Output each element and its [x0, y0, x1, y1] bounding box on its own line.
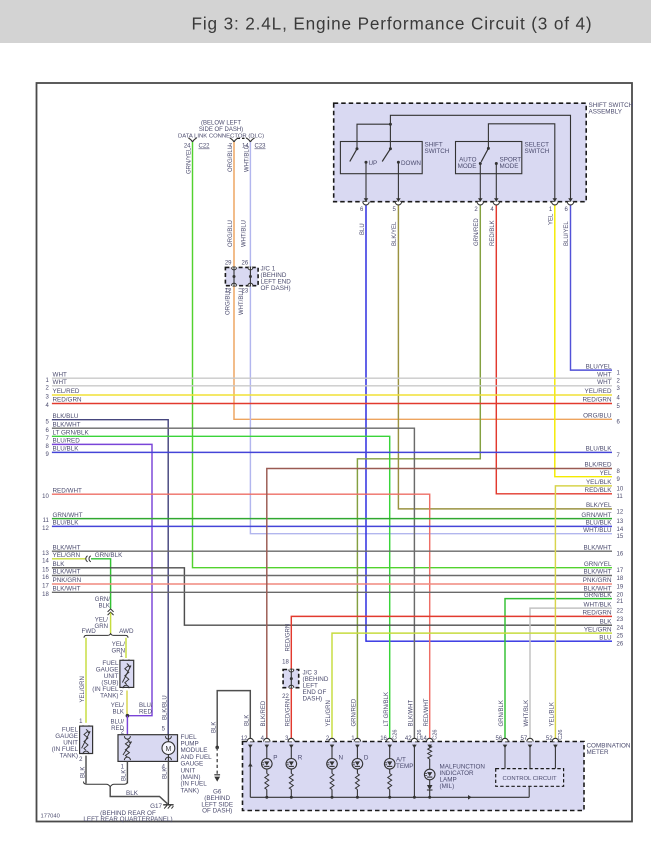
- wire BLK/WHT L18-R20: [52, 591, 612, 593]
- wire YEL/GRN L14 segment: [52, 558, 86, 560]
- svg-text:WHT: WHT: [53, 371, 67, 378]
- svg-text:TANK): TANK): [60, 753, 78, 760]
- fuel pump motor M: [167, 735, 169, 742]
- svg-text:WHT: WHT: [597, 379, 611, 386]
- malfunction indicator lamp MIL: [424, 769, 435, 780]
- svg-text:15: 15: [42, 567, 49, 573]
- meter internal pin12 line with arrow: [249, 745, 251, 798]
- svg-text:YEL/GRN: YEL/GRN: [584, 626, 612, 633]
- meter pin 57 entry: [527, 738, 533, 741]
- svg-text:SWITCH: SWITCH: [425, 148, 450, 155]
- junction connector J/C3 box: [283, 670, 299, 688]
- indicator LED A/T TEMP: [389, 745, 391, 759]
- resistor below LED D: [355, 774, 359, 790]
- svg-text:42: 42: [405, 736, 412, 742]
- svg-text:P: P: [273, 755, 277, 762]
- svg-text:ORG/BLU: ORG/BLU: [228, 220, 234, 247]
- ground G17 symbol: [167, 803, 169, 805]
- svg-text:DASH): DASH): [303, 696, 323, 703]
- merge brace BLK wires: [84, 782, 128, 787]
- shift switch box: [340, 142, 422, 174]
- svg-text:GRN/WHT: GRN/WHT: [581, 512, 611, 519]
- svg-text:RED/WHT: RED/WHT: [424, 698, 430, 726]
- svg-text:18: 18: [282, 660, 289, 666]
- svg-text:BLU: BLU: [360, 223, 366, 235]
- DLC terminal pin 24: [188, 138, 192, 142]
- wire YEL/BLK sub pin2 to junction: [126, 691, 128, 716]
- svg-text:GRN/WHT: GRN/WHT: [53, 512, 83, 519]
- svg-text:29: 29: [225, 261, 232, 267]
- svg-text:7: 7: [45, 436, 49, 442]
- J/C1 internal wire segments: [233, 267, 235, 287]
- shift switch assembly box: [334, 103, 587, 202]
- svg-text:1: 1: [79, 719, 83, 725]
- wire BLK/WHT L13-R16: [52, 550, 612, 552]
- svg-text:17: 17: [42, 584, 49, 590]
- svg-text:56: 56: [496, 736, 503, 742]
- svg-text:4: 4: [490, 207, 494, 213]
- svg-text:CONTROL CIRCUIT: CONTROL CIRCUIT: [503, 776, 558, 782]
- meter pin 14 entry: [427, 738, 433, 741]
- assembly exit pin 2 (GRN/RED): [478, 198, 483, 202]
- J/C3 entry arcs: [289, 670, 294, 673]
- svg-text:WHT/BLU: WHT/BLU: [241, 220, 247, 247]
- svg-text:BLU/RED: BLU/RED: [53, 438, 81, 445]
- svg-text:BLK: BLK: [600, 618, 613, 625]
- wire BLK meter pin 12 to G6: [217, 691, 250, 748]
- inline connector on L14: [86, 556, 88, 562]
- wire BLU/BLK L12-R14: [52, 525, 612, 527]
- svg-text:GRN/BLK: GRN/BLK: [95, 552, 123, 559]
- svg-text:14: 14: [42, 558, 49, 564]
- svg-text:DATA LINK CONNECTOR (DLC): DATA LINK CONNECTOR (DLC): [178, 134, 264, 140]
- svg-text:13: 13: [42, 551, 49, 557]
- svg-text:BLK/WHT: BLK/WHT: [584, 569, 612, 576]
- svg-text:5: 5: [617, 404, 621, 410]
- svg-text:MODE: MODE: [458, 163, 477, 170]
- svg-text:16: 16: [42, 575, 49, 581]
- svg-text:C22: C22: [199, 144, 211, 150]
- svg-text:C26: C26: [558, 730, 564, 740]
- svg-text:25: 25: [617, 634, 624, 640]
- svg-text:LT GRN/BLK: LT GRN/BLK: [384, 692, 390, 726]
- svg-text:PNK/GRN: PNK/GRN: [583, 577, 612, 584]
- wire DOWN contact down: [397, 162, 399, 201]
- fuel pump pin 1 exit: [124, 757, 130, 760]
- ground G6 reference arrow: [214, 774, 220, 776]
- svg-text:GRN/YEL: GRN/YEL: [187, 147, 193, 174]
- fuel pump module box: [118, 735, 178, 762]
- svg-text:OF DASH): OF DASH): [261, 285, 291, 292]
- svg-text:C26: C26: [392, 730, 398, 740]
- svg-text:24: 24: [617, 626, 624, 632]
- wire WHT L1-R2: [52, 377, 612, 379]
- wire YEL/GRN AWD branch to sub gauge: [125, 638, 127, 658]
- svg-text:GRN/RED: GRN/RED: [474, 218, 480, 246]
- svg-text:BLK: BLK: [112, 709, 124, 716]
- svg-text:ORG/BLU: ORG/BLU: [583, 413, 612, 420]
- wire select switch common: [488, 124, 554, 202]
- fuel gauge unit resistor: [84, 729, 88, 750]
- svg-text:BLK/YEL: BLK/YEL: [586, 502, 612, 509]
- wire BLK/WHT L6 to meter pin 42: [52, 428, 415, 741]
- svg-text:BLK/WHT: BLK/WHT: [53, 544, 81, 551]
- wire BLK pump pin4 to ground: [167, 761, 169, 803]
- fuel pump resistor: [125, 740, 129, 758]
- fuel gauge unit sub box: [120, 660, 134, 687]
- svg-text:2: 2: [45, 385, 49, 391]
- split brace FWD/AWD: [84, 634, 128, 638]
- svg-text:RED/GRN: RED/GRN: [582, 610, 611, 617]
- assembly exit pin 6 (BLU): [364, 198, 369, 202]
- svg-text:RED/GRN: RED/GRN: [285, 699, 291, 727]
- wire SPORT contact down: [495, 164, 497, 202]
- svg-text:UP: UP: [369, 160, 378, 167]
- fuel gauge unit pin 2: [83, 751, 89, 754]
- J/C3 pass-through dot: [290, 677, 293, 680]
- svg-text:BLK: BLK: [245, 715, 251, 726]
- svg-text:METER: METER: [587, 749, 609, 756]
- fuel pump pin 4 exit: [165, 757, 171, 760]
- wire RED/BLK shift pin4 to right pin 11: [496, 203, 612, 494]
- wire YEL/BLK meter pin 52 to right pin 10: [555, 486, 612, 742]
- svg-text:23: 23: [242, 289, 249, 295]
- svg-text:RED/BLK: RED/BLK: [490, 220, 496, 246]
- meter pin 12 entry: [247, 738, 253, 741]
- svg-text:RED/GRN: RED/GRN: [286, 624, 292, 652]
- svg-text:8: 8: [45, 444, 49, 450]
- wire YEL/GRN FWD branch to fuel gauge unit: [85, 638, 87, 723]
- indicator LED R: [290, 745, 292, 759]
- svg-text:16: 16: [617, 552, 624, 558]
- meter internal pin42 line: [413, 745, 415, 798]
- wire BLK merged to G17: [110, 787, 167, 804]
- svg-text:21: 21: [617, 599, 624, 605]
- combination meter box: [243, 742, 585, 811]
- header bar: [0, 0, 651, 43]
- meter pin 42 entry: [411, 738, 417, 741]
- svg-text:GRN/BLK: GRN/BLK: [499, 700, 505, 726]
- diode below MIL: [429, 780, 431, 785]
- svg-text:YEL/BLK: YEL/BLK: [550, 702, 556, 726]
- svg-text:YEL/GRN: YEL/GRN: [326, 700, 332, 726]
- svg-text:6: 6: [360, 207, 364, 213]
- wire BLU shift pin6 to right pin 26: [366, 203, 612, 641]
- junction dot shift commons: [389, 123, 392, 126]
- svg-text:ORG/BLU: ORG/BLU: [228, 145, 234, 172]
- svg-text:BLU: BLU: [599, 634, 612, 641]
- svg-text:14: 14: [617, 527, 624, 533]
- wire BLU/YEL shift pin6 to right pin 1: [571, 203, 613, 370]
- wire GRN/WHT L11-R13: [52, 518, 612, 520]
- wire RED/WHT L10 to meter pin 14: [52, 494, 430, 741]
- svg-text:AWD: AWD: [119, 628, 134, 635]
- svg-text:BLK/BLU: BLK/BLU: [53, 413, 79, 420]
- svg-text:GRN/YEL: GRN/YEL: [584, 561, 612, 568]
- wire RED/GRN L4-R5: [52, 403, 612, 405]
- assembly exit pin 6 (BLU/YEL): [568, 198, 573, 202]
- svg-text:WHT: WHT: [53, 379, 67, 386]
- meter pin 2 entry: [329, 738, 335, 741]
- svg-text:BLU/BLK: BLU/BLK: [53, 520, 80, 527]
- fuel pump pin 2 entry: [124, 736, 130, 739]
- svg-text:12: 12: [617, 509, 624, 515]
- svg-text:13: 13: [617, 519, 624, 525]
- wire WHT/BLK meter pin 57 to right pin 22: [530, 608, 612, 741]
- wire BLK L15 to right pin 24: [52, 568, 612, 625]
- meter pin 3 entry: [288, 738, 294, 741]
- svg-text:BLU/YEL: BLU/YEL: [586, 363, 612, 370]
- svg-text:BLU/BLK: BLU/BLK: [53, 446, 80, 453]
- svg-text:19: 19: [617, 584, 624, 590]
- meter ground bus: [250, 796, 529, 798]
- svg-text:BLK: BLK: [122, 770, 128, 781]
- J/C1 entry arcs: [232, 267, 237, 270]
- fuel pump pin 5 entry: [165, 736, 171, 739]
- J/C1 wire ORG/BLU pass-through dot: [233, 275, 236, 278]
- svg-text:11: 11: [617, 494, 624, 500]
- fuel gauge unit box: [80, 726, 93, 753]
- meter internal pin57 stub: [529, 745, 531, 769]
- resistor above MIL: [429, 745, 431, 746]
- svg-text:FWD: FWD: [82, 628, 97, 635]
- meter pin 4 entry: [264, 738, 270, 741]
- svg-text:8: 8: [617, 469, 621, 475]
- svg-text:WHT/BLK: WHT/BLK: [524, 700, 530, 727]
- svg-text:20: 20: [617, 593, 624, 599]
- switch SPORT MODE contact: [495, 162, 498, 165]
- svg-text:BLK: BLK: [98, 603, 110, 610]
- switch AUTO MODE contact: [479, 162, 482, 165]
- svg-text:9: 9: [617, 477, 621, 483]
- svg-text:WHT/BLK: WHT/BLK: [584, 601, 613, 608]
- svg-text:YEL: YEL: [600, 470, 612, 477]
- svg-text:177040: 177040: [41, 814, 60, 820]
- wire WHT L2-R3: [52, 385, 612, 387]
- svg-text:10: 10: [617, 486, 624, 492]
- svg-text:YEL/RED: YEL/RED: [53, 388, 80, 395]
- svg-text:BLK/RED: BLK/RED: [261, 700, 267, 726]
- svg-text:5: 5: [392, 207, 396, 213]
- wire BLK dashed to G6: [216, 747, 218, 775]
- svg-text:PNK/GRN: PNK/GRN: [53, 577, 82, 584]
- svg-text:52: 52: [546, 736, 553, 742]
- junction dot BLK G6: [215, 746, 219, 750]
- fuel gauge unit sub pin 2: [123, 685, 129, 688]
- wire BLU/RED junction to pump pin 2: [126, 716, 128, 735]
- svg-text:C26: C26: [432, 730, 438, 740]
- wire ORG/BLU from DLC 7 through J/C1 to right pin 6: [234, 142, 612, 419]
- svg-text:14: 14: [420, 736, 427, 742]
- switch UP: [356, 147, 359, 150]
- svg-text:1: 1: [121, 765, 125, 771]
- indicator LED D: [356, 745, 358, 759]
- svg-text:4: 4: [45, 403, 49, 409]
- svg-text:M: M: [165, 746, 171, 753]
- meter pin 1 entry: [354, 738, 360, 741]
- svg-text:LEFT REAR QUARTERPANEL): LEFT REAR QUARTERPANEL): [83, 816, 172, 823]
- svg-text:BLK: BLK: [80, 767, 86, 778]
- svg-text:5: 5: [45, 419, 49, 425]
- meter pin 52 entry: [552, 738, 558, 741]
- svg-text:TANK): TANK): [100, 693, 118, 700]
- DLC terminal pin 7: [230, 138, 234, 142]
- svg-text:SWITCH: SWITCH: [525, 148, 550, 155]
- svg-text:17: 17: [617, 568, 624, 574]
- wire BLK/YEL shift pin5 to right pin 12: [398, 203, 612, 509]
- svg-text:2: 2: [120, 691, 124, 697]
- svg-text:R: R: [298, 755, 303, 762]
- svg-text:GRN/BLK: GRN/BLK: [584, 592, 612, 599]
- svg-text:23: 23: [617, 617, 624, 623]
- resistor below LED R: [289, 774, 293, 790]
- wire BLK/WHT L16-R18: [52, 575, 612, 577]
- svg-text:10: 10: [42, 494, 49, 500]
- fuel gauge unit sub resistor: [125, 664, 129, 685]
- assembly exit pin 4 (RED/BLK): [494, 198, 499, 202]
- junction connector J/C1 box: [225, 267, 258, 285]
- wire BLK fuel gauge to merge: [85, 756, 87, 784]
- meter internal pin52 stub: [554, 745, 556, 769]
- indicator LED P: [266, 745, 268, 759]
- svg-text:RED/GRN: RED/GRN: [582, 397, 611, 404]
- svg-text:1: 1: [549, 207, 553, 213]
- svg-text:RED: RED: [139, 709, 152, 716]
- wire BLU/BLK L9-R7: [52, 451, 612, 453]
- svg-text:RED/GRN: RED/GRN: [53, 397, 82, 404]
- select switch box: [456, 142, 522, 174]
- svg-text:26: 26: [617, 642, 624, 648]
- svg-text:4: 4: [617, 395, 621, 401]
- J/C1 wire WHT/BLU pass-through dot: [249, 275, 252, 278]
- svg-text:1: 1: [45, 378, 49, 384]
- resistor below LED P: [265, 774, 269, 790]
- svg-text:SIDE OF DASH): SIDE OF DASH): [199, 127, 243, 133]
- svg-text:(BELOW LEFT: (BELOW LEFT: [201, 121, 241, 127]
- svg-text:9: 9: [45, 452, 49, 458]
- svg-text:RED/BLK: RED/BLK: [585, 487, 613, 494]
- svg-text:BLK: BLK: [163, 768, 169, 779]
- svg-text:12: 12: [42, 526, 49, 532]
- wire BLK pump pin1 to merge: [126, 761, 128, 783]
- resistor below LED N: [330, 774, 334, 790]
- svg-text:BLU/BLK: BLU/BLK: [586, 520, 613, 527]
- svg-text:7: 7: [617, 453, 621, 459]
- control circuit box: [496, 769, 564, 787]
- svg-text:2: 2: [617, 379, 621, 385]
- svg-text:2: 2: [79, 757, 83, 763]
- svg-text:18: 18: [42, 592, 49, 598]
- svg-text:5: 5: [162, 727, 166, 733]
- svg-text:22: 22: [617, 609, 624, 615]
- meter pin 56 entry: [502, 738, 508, 741]
- svg-text:18: 18: [617, 576, 624, 582]
- svg-text:1: 1: [617, 371, 621, 377]
- resistor below A/T TEMP: [388, 774, 392, 790]
- wire BLK/RED meter pin 4 to right pin 8: [267, 469, 612, 742]
- svg-text:N: N: [339, 755, 344, 762]
- svg-text:BLK/WHT: BLK/WHT: [409, 699, 415, 726]
- J/C3 internal wire segment: [290, 669, 292, 689]
- svg-text:DOWN: DOWN: [401, 160, 421, 167]
- svg-text:3: 3: [45, 395, 49, 401]
- svg-text:6: 6: [617, 420, 621, 426]
- svg-text:WHT: WHT: [597, 371, 611, 378]
- wire YEL shift pin1 to right pin 9: [555, 203, 612, 477]
- wire GRN/BLK meter pin 56 to right pin 21: [505, 599, 612, 742]
- svg-text:BLK/WHT: BLK/WHT: [53, 569, 81, 576]
- svg-text:YEL/BLK: YEL/BLK: [586, 479, 612, 486]
- svg-text:15: 15: [617, 534, 624, 540]
- svg-text:2: 2: [474, 207, 478, 213]
- svg-text:D: D: [364, 755, 369, 762]
- svg-text:YEL/GRN: YEL/GRN: [53, 552, 81, 559]
- svg-text:6: 6: [565, 207, 569, 213]
- junction dot YEL/BLK + BLU/RED: [126, 714, 130, 718]
- svg-text:12: 12: [225, 289, 232, 295]
- wire YEL/GRN down to split: [110, 613, 112, 634]
- svg-text:TEMP: TEMP: [396, 763, 414, 770]
- wire RED/GRN right pin 23 to meter pin 3: [291, 616, 612, 741]
- switch DOWN: [389, 147, 392, 150]
- svg-text:BLK/WHT: BLK/WHT: [53, 421, 81, 428]
- DLC terminal pin 14: [246, 138, 250, 142]
- svg-text:YEL: YEL: [548, 213, 554, 225]
- svg-text:16: 16: [380, 736, 387, 742]
- svg-text:6: 6: [45, 428, 49, 434]
- svg-text:BLK/WHT: BLK/WHT: [584, 544, 612, 551]
- svg-text:RED/WHT: RED/WHT: [53, 487, 83, 494]
- inline connector GRN-to-YEL: [108, 609, 114, 612]
- svg-text:YEL/RED: YEL/RED: [585, 388, 612, 395]
- svg-text:YEL/GRN: YEL/GRN: [80, 676, 86, 702]
- svg-text:12: 12: [241, 736, 248, 742]
- svg-text:BLK/RED: BLK/RED: [585, 462, 612, 469]
- svg-text:(MIL): (MIL): [440, 783, 455, 790]
- svg-text:BLU/YEL: BLU/YEL: [564, 221, 570, 246]
- wire UP contact down: [365, 162, 367, 201]
- wire GRN/RED shift pin2 to meter pin 1: [357, 203, 480, 742]
- svg-text:3: 3: [617, 386, 621, 392]
- wire GRN/YEL from DLC 24 to right pin 17: [193, 142, 613, 568]
- svg-text:BLK: BLK: [211, 722, 217, 733]
- wire YEL/RED L3-R4: [52, 394, 612, 396]
- svg-text:57: 57: [521, 736, 528, 742]
- svg-text:BLK/BLU: BLK/BLU: [162, 695, 168, 720]
- wire YEL/GRN right pin 25 to meter pin 2: [332, 633, 612, 741]
- svg-text:WHT/BLU: WHT/BLU: [245, 145, 251, 172]
- meter internal pin56 stub: [504, 745, 506, 769]
- svg-text:WHT/BLU: WHT/BLU: [583, 527, 612, 534]
- svg-text:11: 11: [43, 518, 50, 524]
- svg-text:BLK: BLK: [126, 790, 139, 797]
- assembly exit pin 1 (YEL): [553, 198, 558, 202]
- svg-text:MODE: MODE: [500, 163, 519, 170]
- assembly exit pin 5 (BLK/YEL): [396, 198, 401, 202]
- wire BLU/RED L8 to junction with YEL/BLK: [52, 444, 152, 715]
- svg-text:BLU/BLK: BLU/BLK: [586, 446, 613, 453]
- wire BLK/BLU L5 to fuel pump pin 5: [52, 420, 168, 735]
- wire GRN/BLK segment to split: [91, 559, 111, 609]
- wire shift switch commons: [357, 124, 390, 149]
- wire AUTO contact down: [479, 164, 481, 202]
- svg-text:OF DASH): OF DASH): [202, 808, 232, 815]
- indicator LED N: [331, 745, 333, 759]
- wire WHT/BLU from DLC 14 through J/C1 to right pin 15: [250, 142, 612, 534]
- svg-text:LT GRN/BLK: LT GRN/BLK: [53, 430, 90, 437]
- svg-text:C23: C23: [255, 144, 267, 150]
- svg-text:BLK/YEL: BLK/YEL: [392, 221, 398, 246]
